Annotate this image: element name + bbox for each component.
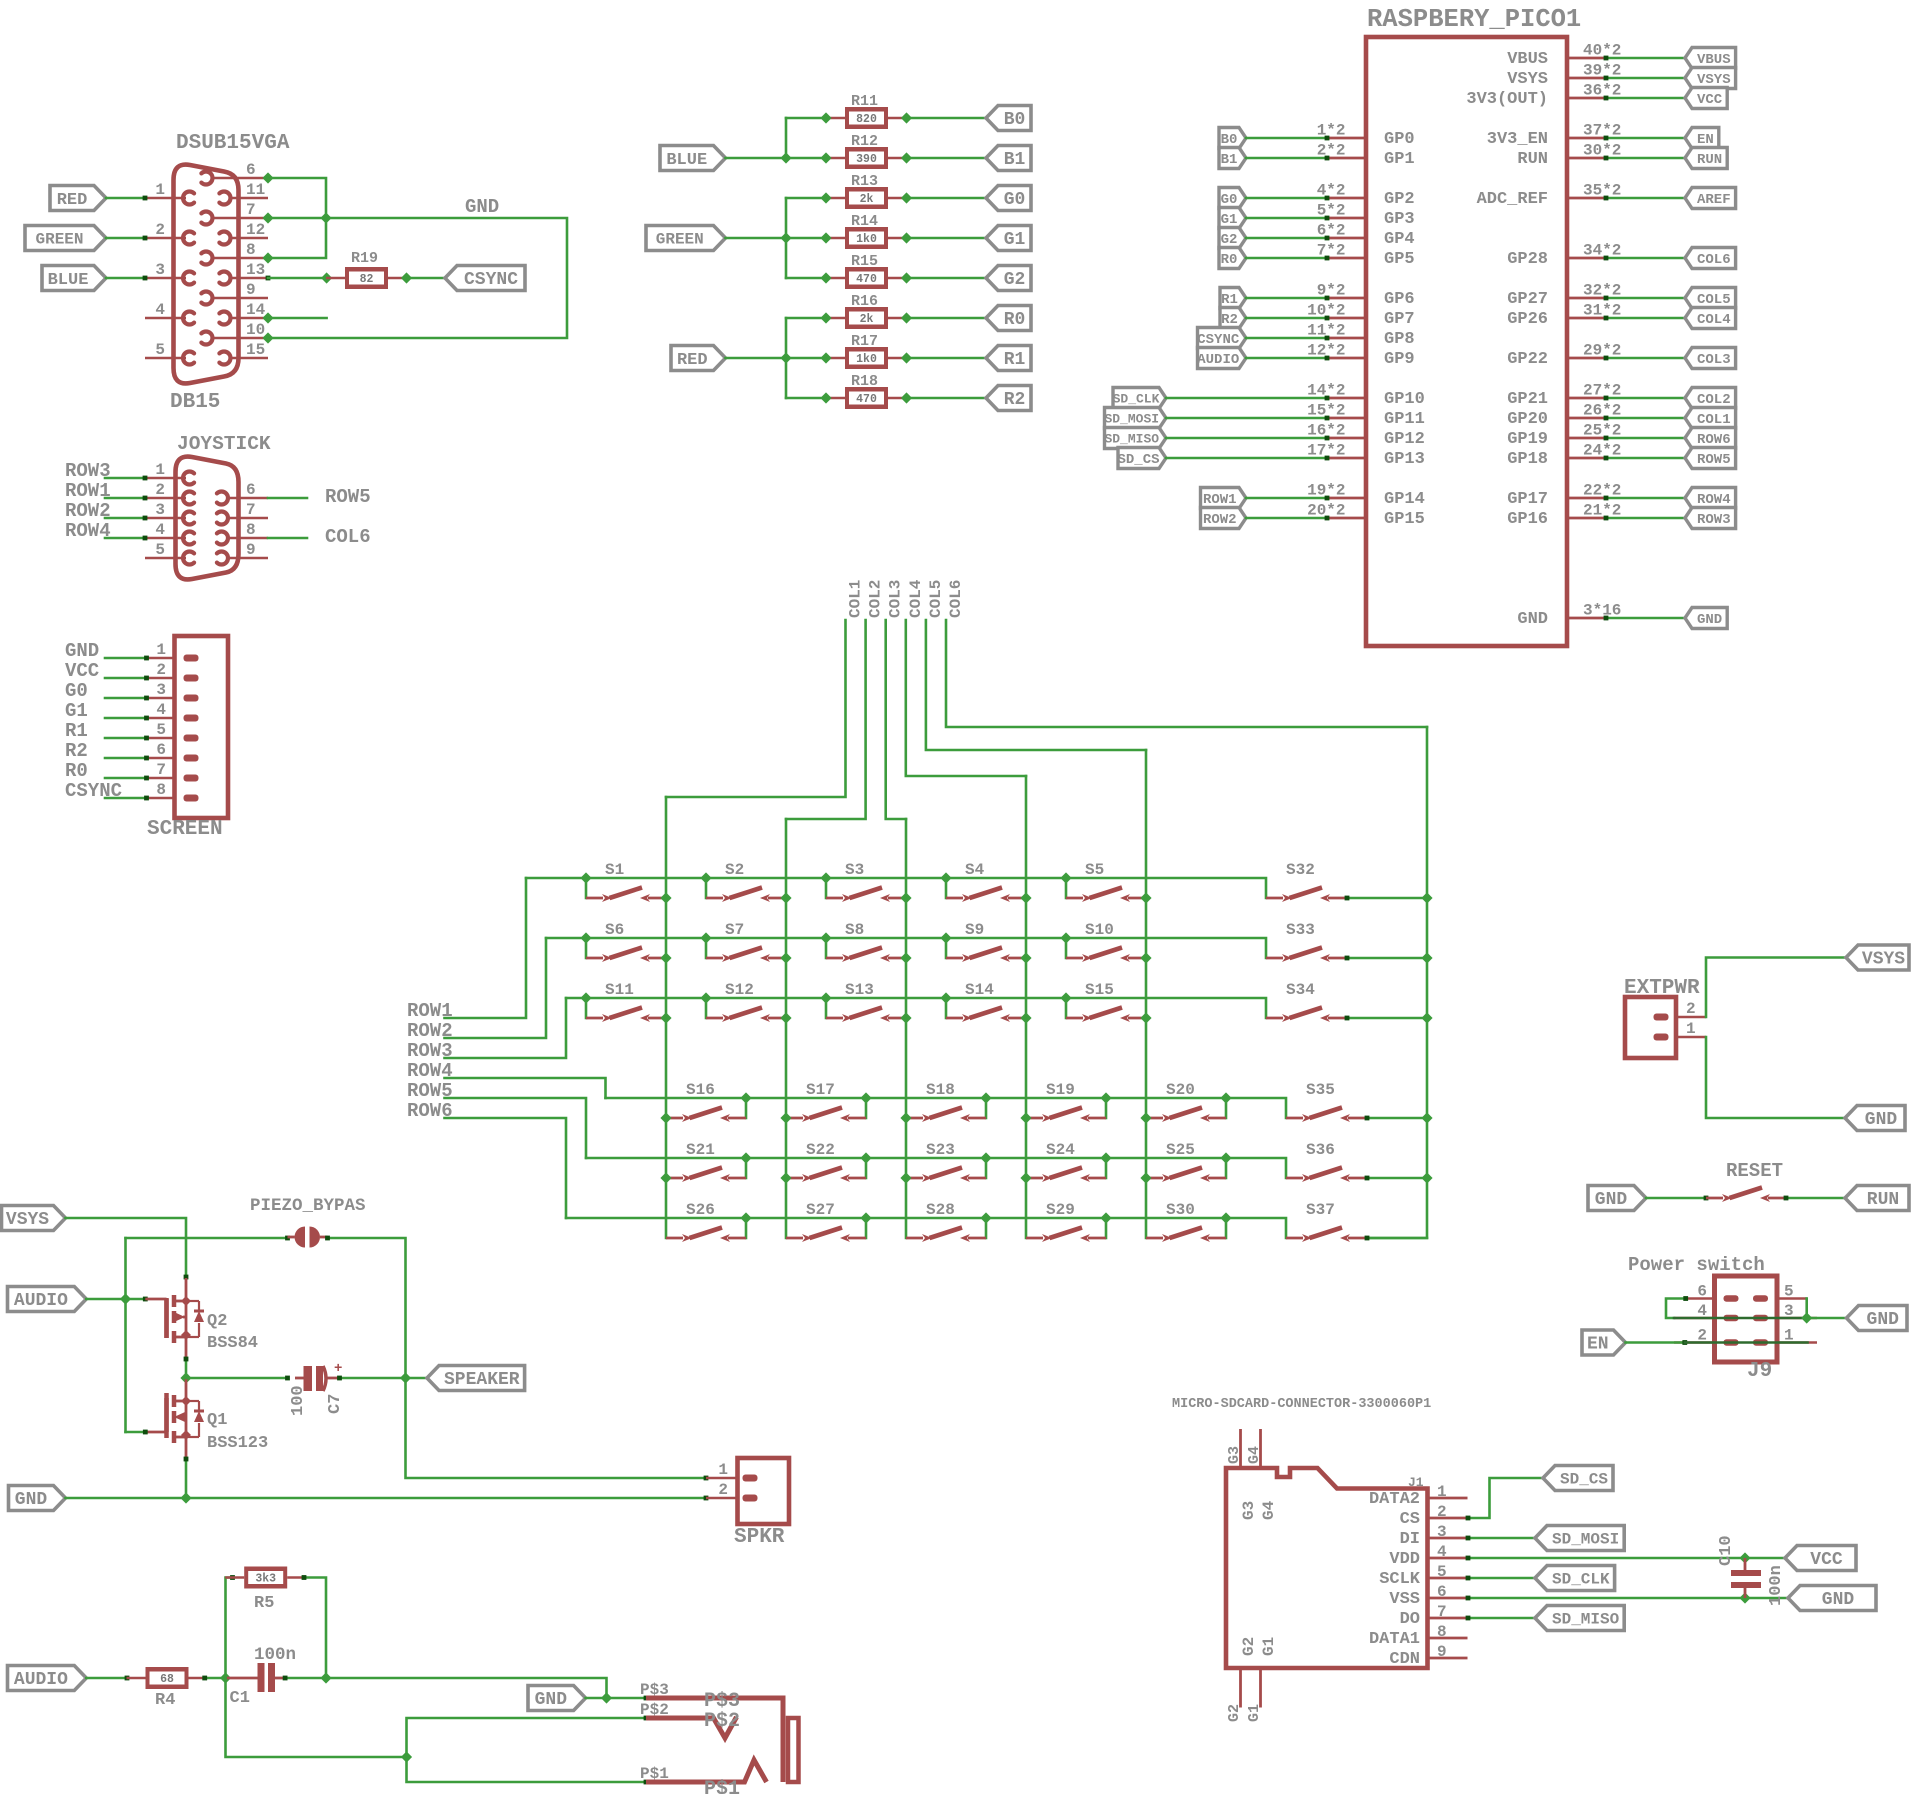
svg-text:R15: R15 — [851, 253, 878, 270]
svg-text:AREF: AREF — [1697, 192, 1731, 208]
EXTPWR pin 2 — [1676, 1016, 1706, 1019]
svg-text:R12: R12 — [851, 133, 878, 150]
svg-text:G0: G0 — [65, 680, 88, 702]
wire RED — [106, 197, 145, 200]
junction S3 col — [900, 892, 911, 903]
wire to P$2 P$1 — [226, 1678, 647, 1757]
svg-text:GP2: GP2 — [1384, 190, 1415, 209]
DB15 pin 3 stub — [145, 277, 186, 280]
svg-text:VSYS: VSYS — [6, 1210, 49, 1230]
svg-text:3: 3 — [155, 261, 165, 279]
SCREEN pin 3 — [147, 697, 175, 700]
svg-text:DATA2: DATA2 — [1369, 1490, 1420, 1509]
pico pin 10*2 GP7 stub — [1328, 317, 1366, 320]
svg-text:G3: G3 — [1240, 1501, 1258, 1520]
wire AUDIO amp — [86, 1298, 145, 1301]
DB15 pin 1 stub — [145, 197, 186, 200]
svg-text:SD_MOSI: SD_MOSI — [1552, 1530, 1619, 1548]
junction R13 left — [820, 192, 831, 203]
svg-text:G1: G1 — [65, 700, 88, 722]
junction R19 left — [321, 272, 332, 283]
junction DB15 pin8 — [262, 252, 273, 263]
SCREEN pin 8 — [147, 797, 175, 800]
wire R0 screen — [105, 777, 147, 780]
wire drop S1 — [585, 878, 588, 898]
switch S9 — [946, 957, 963, 960]
svg-text:2: 2 — [155, 481, 165, 499]
net GND flag pico right — [1685, 608, 1727, 629]
svg-text:ROW6: ROW6 — [1697, 432, 1731, 448]
wire drop S25 — [1225, 1158, 1228, 1178]
wire R12 out — [907, 157, 987, 160]
svg-text:R11: R11 — [851, 93, 878, 110]
svg-text:6: 6 — [246, 481, 256, 499]
capacitor C1 — [226, 1677, 258, 1680]
junction GND jack — [601, 1692, 612, 1703]
wire drop S16 — [745, 1098, 748, 1118]
wire ROW4 matrix — [445, 1078, 606, 1098]
junction bus S1 — [580, 872, 591, 883]
wire COL1 routing — [666, 620, 846, 797]
svg-text:BLUE: BLUE — [48, 271, 89, 290]
svg-text:S20: S20 — [1166, 1081, 1195, 1099]
net SD_MISO flag — [1535, 1606, 1624, 1631]
wire drop S22 — [865, 1158, 868, 1178]
pico pin 27*2 GP21 stub — [1567, 397, 1605, 400]
svg-text:4: 4 — [156, 701, 166, 719]
wire VSYS pico right — [1605, 77, 1685, 80]
junction bus S11 — [580, 992, 591, 1003]
wire GND amp — [66, 1497, 707, 1500]
svg-text:S35: S35 — [1306, 1081, 1335, 1099]
svg-text:3: 3 — [1437, 1523, 1447, 1541]
net COL3 flag pico right — [1685, 348, 1736, 369]
net SD_MOSI flag pico — [1105, 408, 1167, 429]
svg-text:4: 4 — [1437, 1543, 1447, 1561]
svg-text:ROW4: ROW4 — [1697, 492, 1731, 508]
wire J9 6-4 link — [1666, 1299, 1686, 1319]
pico pin 16*2 GP12 stub — [1328, 437, 1366, 440]
wire Q2-Q1 link — [185, 1358, 188, 1378]
svg-text:R0: R0 — [1221, 252, 1238, 268]
svg-text:CS: CS — [1400, 1510, 1420, 1529]
wire drop S7 — [705, 938, 708, 958]
wire BLUE — [106, 277, 145, 280]
wire S37 out — [1366, 1237, 1427, 1240]
net ROW1 flag pico — [1201, 488, 1247, 509]
svg-text:8: 8 — [246, 241, 256, 259]
svg-text:GP10: GP10 — [1384, 390, 1425, 409]
junction S21 col — [660, 1172, 671, 1183]
svg-text:GP4: GP4 — [1384, 230, 1415, 249]
svg-text:470: 470 — [856, 273, 877, 286]
DB15 pin 4 stub — [145, 317, 186, 320]
svg-text:PIEZO_BYPAS: PIEZO_BYPAS — [250, 1196, 366, 1216]
connector SPKR body — [738, 1458, 790, 1524]
svg-text:J9: J9 — [1747, 1360, 1772, 1383]
svg-text:SD_CLK: SD_CLK — [1552, 1570, 1610, 1588]
wire AUDIO branch vertical — [124, 1238, 127, 1432]
svg-text:S18: S18 — [926, 1081, 955, 1099]
net VSYS flag pico right — [1685, 68, 1736, 89]
wire R16 out — [907, 317, 987, 320]
junction R14 left — [820, 232, 831, 243]
wire to P$1 — [407, 1757, 647, 1782]
net R1 flag — [986, 346, 1031, 371]
pico pin 20*2 GP15 stub — [1328, 517, 1366, 520]
svg-text:GP11: GP11 — [1384, 410, 1425, 429]
wire S34 out — [1346, 1017, 1427, 1020]
wire ROW3 matrix — [445, 998, 567, 1058]
svg-text:S25: S25 — [1166, 1141, 1195, 1159]
switch S37 — [1286, 1237, 1303, 1240]
svg-text:R1: R1 — [65, 720, 88, 742]
svg-text:GP8: GP8 — [1384, 330, 1415, 349]
svg-text:DO: DO — [1400, 1610, 1420, 1629]
wire B1 pico — [1246, 157, 1327, 160]
wire ROW5 pico right — [1605, 457, 1685, 460]
wire COL1 pico right — [1605, 417, 1685, 420]
JOYSTICK pin 6 stub — [227, 497, 269, 500]
net GND flag sd — [1788, 1586, 1876, 1611]
svg-text:S30: S30 — [1166, 1201, 1195, 1219]
svg-text:S5: S5 — [1085, 861, 1104, 879]
svg-text:1: 1 — [155, 181, 165, 199]
svg-text:VDD: VDD — [1389, 1550, 1420, 1569]
wire piezo to speaker net — [328, 1238, 406, 1378]
net ROW5 flag pico right — [1685, 448, 1736, 469]
svg-text:P$3: P$3 — [640, 1681, 669, 1699]
wire COL3 pico right — [1605, 357, 1685, 360]
net RUN flag pico right — [1685, 148, 1727, 169]
svg-text:2: 2 — [155, 221, 165, 239]
pico pin 15*2 GP11 stub — [1328, 417, 1366, 420]
svg-text:GND: GND — [1595, 1190, 1628, 1210]
svg-text:R2: R2 — [65, 740, 88, 762]
svg-text:SD_CLK: SD_CLK — [1113, 391, 1160, 406]
junction S2 col — [780, 892, 791, 903]
svg-text:S29: S29 — [1046, 1201, 1075, 1219]
switch S15 — [1066, 1017, 1083, 1020]
junction bus S27 — [860, 1212, 871, 1223]
switch S30 — [1146, 1237, 1163, 1240]
net VSYS flag audio — [2, 1206, 66, 1231]
wire EN J9 — [1626, 1341, 1685, 1344]
junction bus S15 — [1060, 992, 1071, 1003]
svg-text:BLUE: BLUE — [666, 151, 707, 170]
svg-text:B1: B1 — [1221, 152, 1238, 168]
junction R17 left — [820, 352, 831, 363]
svg-text:S14: S14 — [965, 981, 994, 999]
wire drop S3 — [825, 878, 828, 898]
junction bus S23 — [980, 1152, 991, 1163]
wire RED dac — [726, 357, 787, 360]
junction bus S24 — [1100, 1152, 1111, 1163]
junction S17 col — [780, 1112, 791, 1123]
wire ROW4 — [105, 537, 145, 540]
svg-text:GP21: GP21 — [1507, 390, 1548, 409]
resistor R4 — [127, 1677, 146, 1680]
junction R16 right — [901, 312, 912, 323]
wire COL3 routing — [886, 620, 906, 819]
junction bus S18 — [980, 1092, 991, 1103]
wire BLUE dac — [726, 157, 787, 160]
net ROW4 flag pico right — [1685, 488, 1736, 509]
svg-text:SD_MOSI: SD_MOSI — [1104, 411, 1159, 426]
svg-text:R0: R0 — [1004, 310, 1026, 330]
svg-text:SD_CS: SD_CS — [1117, 452, 1159, 468]
svg-text:R14: R14 — [851, 213, 878, 230]
DB15 pin 13 stub — [229, 277, 268, 280]
switch S14 — [946, 1017, 963, 1020]
svg-text:P$2: P$2 — [640, 1701, 669, 1719]
switch S5 — [1066, 897, 1083, 900]
wire S35 out — [1366, 1117, 1427, 1120]
pico pin 26*2 GP20 stub — [1567, 417, 1605, 420]
svg-text:GP28: GP28 — [1507, 250, 1548, 269]
svg-text:R13: R13 — [851, 173, 878, 190]
svg-text:ROW5: ROW5 — [325, 486, 371, 508]
net GND flag jack — [528, 1686, 586, 1711]
junction S7 col — [780, 952, 791, 963]
junction S15 col — [1140, 1012, 1151, 1023]
wire GND pico right — [1605, 617, 1685, 620]
net AUDIO flag pico — [1198, 348, 1247, 369]
svg-text:ADC_REF: ADC_REF — [1477, 190, 1548, 209]
junction J9 GND — [1801, 1312, 1812, 1323]
junction DB15 pin10 — [262, 332, 273, 343]
wire R1 pico — [1246, 297, 1327, 300]
svg-text:+: + — [334, 1361, 342, 1377]
svg-text:S16: S16 — [686, 1081, 715, 1099]
junction bus S13 — [820, 992, 831, 1003]
connector J9 body — [1715, 1276, 1778, 1362]
svg-text:2: 2 — [1686, 1000, 1696, 1018]
svg-text:11: 11 — [246, 181, 265, 199]
J9 pin1 stub — [1777, 1341, 1817, 1344]
J9 pin4 stub — [1674, 1317, 1715, 1320]
wire row bus S1-S32 — [526, 878, 1266, 898]
junction bus S25 — [1220, 1152, 1231, 1163]
svg-text:S27: S27 — [806, 1201, 835, 1219]
svg-text:COL6: COL6 — [1697, 252, 1731, 268]
wire drop S17 — [865, 1098, 868, 1118]
svg-text:8: 8 — [246, 521, 256, 539]
wire drop S24 — [1105, 1158, 1108, 1178]
svg-text:R1: R1 — [1221, 292, 1238, 308]
junction S32 collector — [1421, 892, 1432, 903]
svg-text:S11: S11 — [605, 981, 634, 999]
pico pin 35*2 ADC_REF stub — [1567, 197, 1605, 200]
junction S14 col — [1020, 1012, 1031, 1023]
switch S13 — [826, 1017, 843, 1020]
pico pin 25*2 GP19 stub — [1567, 437, 1605, 440]
svg-text:G1: G1 — [1246, 1704, 1263, 1722]
svg-text:2k: 2k — [860, 193, 874, 206]
junction R19 right — [401, 272, 412, 283]
svg-text:4: 4 — [155, 521, 165, 539]
sdcard pin 3 DI — [1428, 1537, 1468, 1540]
junction S24 col — [1020, 1172, 1031, 1183]
resistor R17 — [826, 357, 845, 360]
junction S34 collector — [1421, 1012, 1432, 1023]
net VCC flag pico right — [1685, 88, 1727, 109]
wire GND sd — [1468, 1597, 1789, 1600]
DB15 pin 2 stub — [145, 237, 186, 240]
switch S36 — [1286, 1177, 1303, 1180]
resistor R16 — [826, 317, 845, 320]
svg-text:GP26: GP26 — [1507, 310, 1548, 329]
junction S19 col — [1020, 1112, 1031, 1123]
connector jack barrel — [788, 1718, 799, 1782]
svg-text:R19: R19 — [351, 250, 378, 267]
net COL1 flag pico right — [1685, 408, 1736, 429]
svg-text:3V3(OUT): 3V3(OUT) — [1466, 90, 1548, 109]
wire CSYNC pico — [1246, 337, 1327, 340]
connector EXTPWR body — [1625, 997, 1676, 1058]
svg-text:COL2: COL2 — [867, 580, 885, 618]
svg-text:6: 6 — [246, 161, 256, 179]
junction R16 left — [820, 312, 831, 323]
junction bus S30 — [1220, 1212, 1231, 1223]
svg-text:5: 5 — [155, 341, 165, 359]
junction bus S4 — [940, 872, 951, 883]
junction S9 col — [1020, 952, 1031, 963]
switch S18 — [906, 1117, 923, 1120]
wire drop S26 — [745, 1218, 748, 1238]
pico pin 39*2 VSYS stub — [1567, 77, 1605, 80]
junction R15 left — [820, 272, 831, 283]
svg-text:P$1: P$1 — [640, 1765, 669, 1783]
switch S26 — [666, 1237, 683, 1240]
svg-text:COL5: COL5 — [927, 580, 945, 618]
JOYSTICK pin 9 stub — [227, 557, 269, 560]
net B1 flag — [986, 146, 1031, 171]
wire R1 screen — [105, 737, 147, 740]
switch S24 — [1026, 1177, 1043, 1180]
svg-text:7: 7 — [246, 201, 256, 219]
net CSYNC flag — [445, 266, 525, 291]
svg-text:RED: RED — [57, 191, 88, 210]
junction S18 col — [900, 1112, 911, 1123]
wire GND reset — [1646, 1197, 1706, 1200]
wire R18 out — [907, 397, 987, 400]
junction R11 right — [901, 112, 912, 123]
svg-text:9: 9 — [246, 281, 256, 299]
svg-text:ROW2: ROW2 — [1203, 512, 1237, 528]
svg-text:EN: EN — [1697, 132, 1714, 148]
svg-text:GND: GND — [1697, 612, 1722, 628]
svg-text:3: 3 — [156, 681, 166, 699]
net BLUE flag — [42, 266, 106, 291]
svg-text:GP20: GP20 — [1507, 410, 1548, 429]
piezo PIEZO_BYPAS element — [295, 1227, 306, 1248]
junction bus S5 — [1060, 872, 1071, 883]
switch S2 — [706, 897, 723, 900]
svg-text:S4: S4 — [965, 861, 985, 879]
junction bus S17 — [860, 1092, 871, 1103]
junction S36 collector — [1421, 1172, 1432, 1183]
wire R14 out — [907, 237, 987, 240]
wire J9 row21 dark — [1685, 1341, 1808, 1344]
wire ROW1 — [105, 497, 145, 500]
wire G1 pico — [1246, 217, 1327, 220]
junction S20 col — [1140, 1112, 1151, 1123]
connector JOYSTICK body — [176, 457, 239, 580]
svg-text:B0: B0 — [1004, 110, 1026, 130]
junction R11 left — [820, 112, 831, 123]
svg-text:GND: GND — [65, 640, 99, 662]
svg-text:COL1: COL1 — [847, 580, 865, 618]
J9 pads row 4/3 — [1724, 1315, 1739, 1322]
wire COL2 routing — [786, 620, 866, 819]
wire COL5 pico right — [1605, 297, 1685, 300]
wire COL4 routing — [906, 620, 1026, 776]
junction GND tee — [320, 212, 331, 223]
sdcard pin 6 VSS — [1428, 1597, 1468, 1600]
DB15 pin 15 stub — [229, 357, 268, 360]
wire G0 pico — [1246, 197, 1327, 200]
svg-text:S36: S36 — [1306, 1141, 1335, 1159]
net SPEAKER flag — [427, 1366, 525, 1391]
wire drop S27 — [865, 1218, 868, 1238]
svg-text:Q2: Q2 — [207, 1312, 227, 1331]
svg-text:7: 7 — [246, 501, 256, 519]
junction C10 bottom — [1739, 1592, 1750, 1603]
switch S23 — [906, 1177, 923, 1180]
wire drop S4 — [945, 878, 948, 898]
svg-text:2: 2 — [718, 1481, 728, 1499]
svg-text:G1: G1 — [1004, 230, 1026, 250]
svg-text:10: 10 — [246, 321, 265, 339]
capacitor C10 — [1744, 1558, 1747, 1570]
net EN flag pico right — [1685, 128, 1719, 149]
net G0 flag — [986, 186, 1031, 211]
connector jack P$2 contact — [646, 1717, 737, 1738]
switch S27 — [786, 1237, 803, 1240]
switch S19 — [1026, 1117, 1043, 1120]
wire drop S8 — [825, 938, 828, 958]
wire SD_CS pico — [1166, 457, 1327, 460]
wire drop S10 — [1065, 938, 1068, 958]
svg-text:COL3: COL3 — [887, 580, 905, 618]
DB15 pin 6 stub — [211, 177, 268, 180]
junction bus S26 — [740, 1212, 751, 1223]
switch S11 — [586, 1017, 603, 1020]
svg-text:GND: GND — [1822, 1590, 1855, 1610]
switch S6 — [586, 957, 603, 960]
net B0 flag — [986, 106, 1031, 131]
pico pin 3*16 GND stub — [1567, 617, 1605, 620]
net COL6 flag pico right — [1685, 248, 1736, 269]
junction bus S9 — [940, 932, 951, 943]
junction S23 col — [900, 1172, 911, 1183]
junction S16 col — [660, 1112, 671, 1123]
junction R18 left — [820, 392, 831, 403]
wire Q1 source to GND — [185, 1458, 188, 1498]
junction bus S12 — [700, 992, 711, 1003]
switch S7 — [706, 957, 723, 960]
wire ROW1 matrix — [445, 878, 527, 1018]
pico pin 31*2 GP26 stub — [1567, 317, 1605, 320]
transistor Q2 BSS84 — [185, 1278, 188, 1301]
wire J9 pin5 down — [1805, 1299, 1808, 1319]
wire AREF pico right — [1605, 197, 1685, 200]
svg-text:Q1: Q1 — [207, 1411, 227, 1430]
connector jack P$3 contact — [646, 1698, 783, 1782]
svg-text:S22: S22 — [806, 1141, 835, 1159]
svg-text:8: 8 — [1437, 1623, 1447, 1641]
